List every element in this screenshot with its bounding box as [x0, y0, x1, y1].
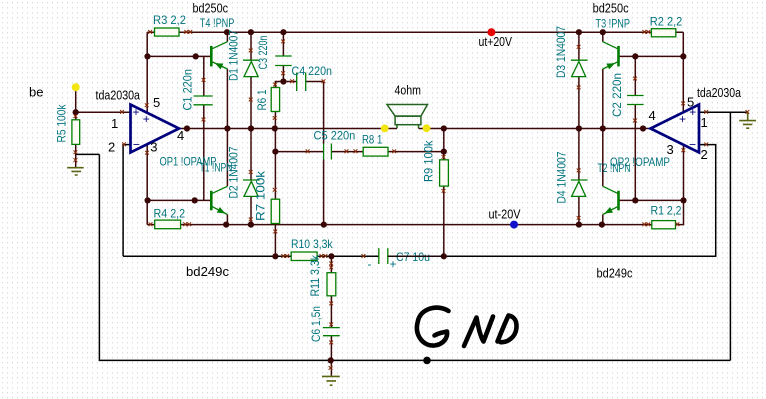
tick D1 pins — [249, 49, 253, 102]
wire D1 column — [250, 32, 252, 128]
node top rail C3 — [280, 29, 286, 35]
transistor T1 — [212, 186, 227, 214]
tick R1 pins — [642, 222, 679, 226]
node T2 base pin3 — [680, 197, 686, 203]
diode D4 — [571, 180, 588, 196]
transistor T1 base bar — [210, 191, 213, 211]
node top rail D3 — [576, 29, 582, 35]
wire top rail — [147, 31, 683, 33]
capacitor C2 — [627, 96, 644, 105]
node T3 base R2 — [680, 53, 686, 59]
svg-text:2: 2 — [108, 139, 115, 154]
svg-text:R9 100k: R9 100k — [422, 140, 436, 182]
svg-text:R6 1: R6 1 — [255, 89, 269, 110]
op-amp U2 OP2 — [651, 105, 700, 153]
svg-text:T2 !NPN: T2 !NPN — [598, 161, 631, 175]
wire right outer loop — [729, 112, 731, 360]
svg-text:C2 220n: C2 220n — [610, 73, 624, 117]
wire left feedback stub — [76, 153, 100, 155]
wire C2 column — [634, 56, 636, 200]
resistor R5 — [72, 120, 80, 145]
wire pin2 right column — [444, 145, 716, 257]
svg-text:bd249c: bd249c — [186, 264, 229, 279]
svg-text:D1 1N4007: D1 1N4007 — [227, 30, 241, 81]
svg-text:4: 4 — [177, 128, 184, 143]
node fb R11 — [328, 253, 334, 259]
resistor R1 — [652, 221, 676, 229]
resistor R8 — [363, 147, 388, 156]
pin tick marks — [74, 30, 750, 370]
wire R8 right to R9 top junction — [388, 151, 444, 153]
wire R6-R7 column — [274, 112, 276, 257]
wire R4 stub — [147, 224, 155, 226]
tick C6 pins — [329, 323, 333, 345]
svg-text:R11 3,3k: R11 3,3k — [308, 254, 322, 296]
WIRES-BLACK — [76, 112, 748, 360]
wire overlay through C7 label — [388, 255, 444, 257]
transistor T4 arrow (PNP in) — [215, 63, 224, 69]
svg-text:tda2030a: tda2030a — [697, 85, 742, 100]
svg-text:bd250c: bd250c — [593, 1, 629, 16]
tick D3 pins — [577, 45, 581, 89]
wire C4 right to column — [306, 82, 324, 144]
transistor T4 — [212, 42, 227, 69]
wire C5 left stub — [275, 151, 323, 153]
wire ut-20V rail — [155, 200, 684, 224]
tick R4 pins — [149, 222, 192, 226]
node T4 base — [144, 53, 150, 59]
resistor R3 — [155, 28, 180, 36]
resistor R2 — [651, 29, 675, 37]
wire left outer loop — [99, 154, 730, 360]
ground right (pin1 OP2) — [739, 112, 756, 128]
node rail R6 — [272, 125, 278, 131]
tick R2 pins — [642, 30, 650, 34]
op-amp U1 OP1 — [131, 105, 180, 153]
transistor T4 base bar — [210, 46, 213, 67]
svg-text:C5 220n: C5 220n — [314, 129, 356, 143]
node T2 base C2 — [632, 197, 638, 203]
node rail T3e — [600, 125, 606, 131]
node ut rail D4b — [576, 222, 582, 228]
svg-text:+: + — [390, 257, 397, 271]
WIRES-MAROON — [76, 32, 684, 376]
svg-text:C3 220n: C3 220n — [256, 36, 270, 70]
transistor T3 arrow (PNP in) — [606, 63, 615, 69]
resistor R9 — [440, 160, 449, 186]
svg-text:R10 3,3k: R10 3,3k — [291, 237, 333, 251]
resistor R6 — [271, 88, 279, 112]
svg-text:ut-20V: ut-20V — [489, 207, 521, 222]
tick C7 pin — [362, 254, 366, 258]
tick C3 pins — [281, 40, 285, 76]
tick gnd right — [746, 110, 750, 114]
svg-text:−: − — [689, 137, 696, 151]
resistor R11 — [327, 273, 336, 296]
capacitor C1 — [194, 96, 213, 105]
capacitor C4 — [297, 73, 306, 92]
wire R11-C6 column — [330, 296, 332, 376]
node base dot3 — [192, 197, 198, 203]
svg-text:D3 1N4007: D3 1N4007 — [554, 26, 568, 78]
wire feedback to C7 segment — [317, 255, 444, 257]
capacitor C7 — [379, 248, 388, 264]
svg-text:R7 100k: R7 100k — [254, 170, 268, 221]
svg-text:D4 1N4007: D4 1N4007 — [555, 151, 569, 203]
wire pin3 right column — [683, 145, 685, 201]
svg-text:R1 2,2: R1 2,2 — [651, 204, 682, 218]
wire column x323 through C5 to ut-rail — [323, 160, 325, 225]
svg-text:R2 2,2: R2 2,2 — [650, 15, 683, 29]
resistor R10 — [291, 252, 317, 261]
speaker 4ohm — [387, 105, 428, 129]
transistor T3 — [603, 42, 618, 69]
tick R9 pins — [442, 155, 446, 193]
tick D2 pins — [249, 170, 253, 221]
node R7 top — [272, 149, 278, 155]
svg-text:bd250c: bd250c — [193, 1, 229, 16]
svg-text:C6 1,5n: C6 1,5n — [309, 306, 323, 342]
wire C4 left stub — [283, 81, 296, 83]
node rail R9 — [441, 125, 447, 131]
svg-text:−: − — [133, 137, 140, 151]
tick C4 pins — [290, 79, 325, 83]
wire R9 column — [443, 129, 445, 257]
node T3 base C2 top — [632, 53, 638, 59]
svg-text:5: 5 — [153, 95, 160, 110]
transistor T3 base bar — [617, 46, 620, 67]
svg-text:1: 1 — [701, 115, 708, 130]
capacitor C6 — [323, 328, 340, 336]
tick R5 pins — [74, 114, 78, 162]
wire T4 base — [147, 55, 210, 57]
node rail D4 — [576, 125, 582, 131]
svg-text:3: 3 — [150, 140, 157, 155]
node fb R7 — [272, 253, 278, 259]
svg-text:R4 2,2: R4 2,2 — [154, 207, 186, 221]
node gnd black dot — [423, 357, 431, 365]
wire D2 column — [250, 129, 252, 225]
resistor R7 — [271, 199, 279, 223]
wire pin1 right with ground stub — [699, 111, 748, 113]
svg-text:C4 220n: C4 220n — [292, 64, 333, 78]
wire pin1 left — [76, 111, 131, 113]
wire C3-R6 jog — [275, 82, 283, 88]
tick C5 pins — [306, 149, 358, 153]
tick R7 pins — [273, 188, 277, 234]
wire left pin5/pin3 column — [146, 32, 148, 224]
node rail D1b — [248, 125, 254, 131]
ground bottom (under C6) — [322, 376, 340, 385]
ground left (under R5) — [67, 168, 84, 175]
wire R2 right corner — [682, 32, 684, 112]
capacitor C3 — [275, 56, 292, 66]
node R9 top — [441, 149, 447, 155]
svg-text:+: + — [143, 112, 150, 126]
tick R11 pins — [329, 262, 333, 306]
node fb C7 R9 — [441, 253, 447, 259]
svg-text:bd249c: bd249c — [597, 266, 633, 281]
svg-text:+: + — [133, 105, 140, 119]
transistor T2 — [603, 186, 618, 214]
node rail T4e — [224, 125, 230, 131]
wire T1 collector-emitter column — [226, 129, 228, 225]
capacitor C5 — [324, 144, 332, 160]
node C6 gnd — [328, 357, 334, 363]
resistor R4 — [155, 220, 181, 229]
transistor T2 base bar — [617, 191, 620, 211]
wire feedback bottom line — [123, 255, 291, 257]
wire C5 right stub to R8 — [331, 151, 363, 153]
tick C2 pins — [633, 77, 637, 123]
wire C3 column — [282, 32, 284, 81]
svg-text:4ohm: 4ohm — [395, 83, 422, 98]
node speaker right yellow — [423, 124, 431, 132]
svg-text:4: 4 — [649, 108, 656, 123]
wire D4 column — [578, 129, 580, 225]
svg-text:T3 !PNP: T3 !PNP — [596, 17, 631, 31]
node T1 base jct — [145, 197, 151, 203]
diode D1 — [243, 60, 260, 76]
wire R10 to R11 junction — [317, 256, 331, 272]
tick OP1 pins — [120, 103, 149, 154]
svg-text:+: + — [679, 112, 686, 126]
node op2 out — [640, 125, 646, 131]
tick R8 pin — [392, 149, 396, 153]
wire C1 column — [203, 56, 205, 200]
diode D3 — [571, 60, 588, 76]
tick C1 pins — [202, 78, 206, 121]
svg-text:ut+20V: ut+20V — [479, 34, 513, 49]
node top rail T3 — [600, 29, 606, 35]
svg-text:R5 100k: R5 100k — [55, 104, 69, 143]
svg-text:1: 1 — [111, 116, 118, 131]
node top rail T4 — [224, 29, 230, 35]
wire T2 column — [602, 129, 604, 225]
svg-text:tda2030a: tda2030a — [96, 88, 141, 103]
wire T4 collector-emitter column — [226, 32, 228, 128]
handwritten GND — [417, 308, 517, 346]
tick gnd bottom — [329, 366, 333, 370]
svg-text:R3 2,2: R3 2,2 — [153, 13, 186, 27]
wire D3 column — [578, 32, 580, 128]
wire T3 base — [619, 55, 684, 57]
node op1 out — [184, 125, 190, 131]
tick OP2 pins — [681, 102, 708, 153]
tick R10 pins — [281, 254, 327, 258]
node ut rail T2e — [599, 222, 605, 228]
transistor T1 arrow (NPN out) — [217, 207, 226, 214]
tick D4 pins — [577, 169, 581, 220]
junction dots maroon — [73, 29, 687, 363]
node C3 bottom — [280, 78, 286, 84]
wire T3 column — [602, 32, 604, 128]
node be input — [73, 109, 79, 115]
svg-text:2: 2 — [701, 147, 708, 162]
transistor T2 arrow (NPN out) — [604, 207, 613, 214]
wire T1 base — [147, 199, 210, 201]
node ut-20V blue dot — [510, 221, 518, 229]
svg-text:C1 220n: C1 220n — [181, 69, 195, 111]
svg-text:R8 1: R8 1 — [362, 133, 383, 147]
tick R3 pins — [148, 30, 192, 34]
wire R5 bottom to ground — [75, 144, 77, 167]
wire T2 base — [619, 199, 684, 201]
svg-text:-: - — [368, 257, 372, 271]
tick R6 pins — [273, 83, 277, 120]
svg-text:5: 5 — [687, 95, 694, 110]
diode D2 — [243, 180, 260, 196]
wire R5 top — [75, 87, 77, 120]
node ut rail D2 — [248, 222, 254, 228]
node ut+20V red dot — [487, 28, 495, 36]
svg-text:be: be — [29, 85, 43, 100]
node top rail D1 — [248, 29, 254, 35]
node be yellow dot — [72, 83, 80, 91]
node ut rail x323 — [321, 222, 327, 228]
svg-text:T4 !PNP: T4 !PNP — [200, 16, 235, 30]
wire output rail — [179, 128, 651, 130]
wire pin2 left column — [123, 145, 130, 257]
node speaker left yellow — [381, 124, 389, 132]
svg-text:D2 1N4007: D2 1N4007 — [227, 146, 241, 198]
node base dot2 — [193, 53, 199, 59]
node ut rail T1e — [223, 222, 229, 228]
